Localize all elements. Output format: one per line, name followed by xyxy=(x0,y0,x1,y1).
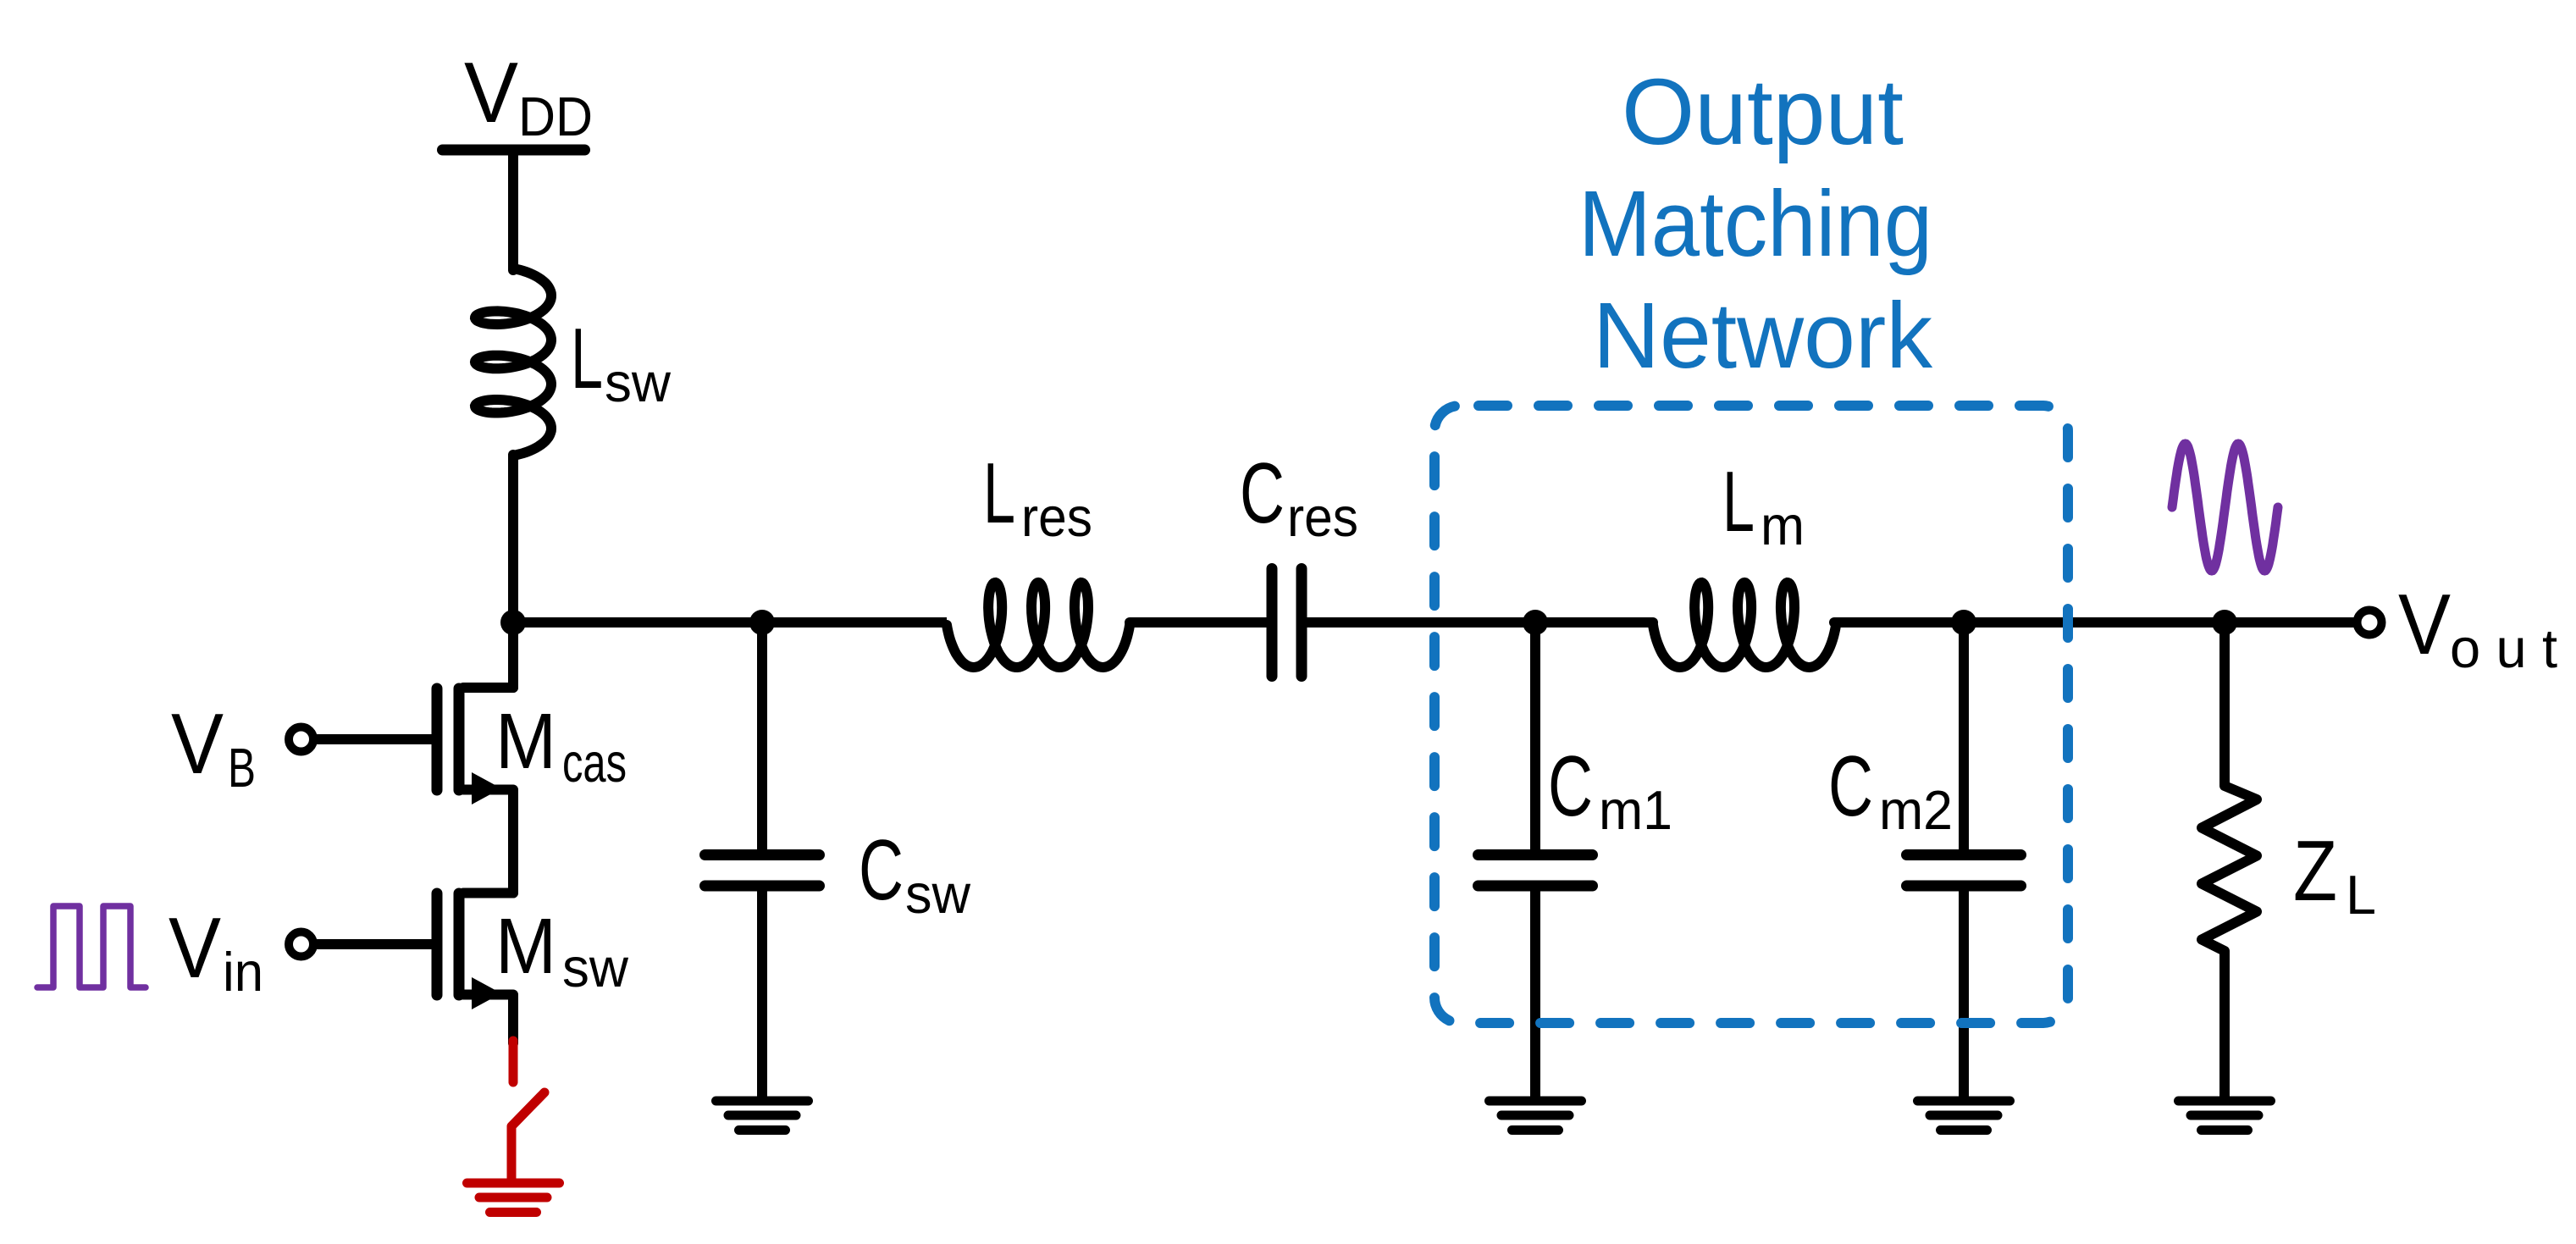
Msw channel bar xyxy=(454,893,465,995)
Mcas drain lead xyxy=(463,683,513,693)
ground (Csw) xyxy=(716,1101,809,1131)
Mcas source arrow xyxy=(472,772,501,804)
wire: Lsw to drain of Mcas (through rail junction) xyxy=(508,455,518,688)
VDD supply bar xyxy=(443,145,585,156)
wire: Vin gate lead xyxy=(313,939,432,949)
svg-text:sw: sw xyxy=(605,351,672,413)
svg-text:L: L xyxy=(571,312,603,406)
junction node Cm1 xyxy=(1523,610,1548,635)
svg-text:M: M xyxy=(495,697,556,785)
resistor ZL (zigzag) xyxy=(2202,786,2257,951)
wire: VB gate lead xyxy=(313,734,432,744)
svg-text:L: L xyxy=(983,446,1015,541)
transistor Msw xyxy=(437,893,513,1044)
svg-text:m1: m1 xyxy=(1599,779,1672,841)
Msw source arrow xyxy=(472,977,501,1009)
capacitor Cm2 plates xyxy=(1907,855,2021,887)
wire: Cm1 top lead xyxy=(1530,622,1540,851)
terminal VB xyxy=(289,727,313,752)
wire: Cm2 node to Vout terminal xyxy=(1964,617,2354,628)
svg-text:C: C xyxy=(859,823,904,918)
inductor Lsw (vertical coil) xyxy=(475,268,551,456)
svg-text:Z: Z xyxy=(2293,824,2337,919)
Msw gate bar xyxy=(432,893,443,995)
Msw source lead xyxy=(463,995,513,1044)
wire: Lres to Cres xyxy=(1130,617,1267,628)
svg-text:Network: Network xyxy=(1593,284,1933,388)
wire: Cm2 bottom lead xyxy=(1959,890,1969,1101)
svg-text:Matching: Matching xyxy=(1578,172,1932,276)
svg-text:V: V xyxy=(169,901,221,996)
svg-text:V: V xyxy=(2398,578,2451,672)
svg-text:Output: Output xyxy=(1622,60,1904,164)
svg-text:C: C xyxy=(1828,739,1873,834)
wire: Lm to Cm2 node xyxy=(1834,617,1964,628)
junction node Csw xyxy=(749,610,775,635)
wire: VDD bar down to Lsw xyxy=(508,150,518,270)
svg-text:cas: cas xyxy=(562,732,627,793)
wire: Cm1 bottom lead xyxy=(1530,890,1540,1101)
input square-wave symbol xyxy=(37,906,146,987)
junction node at drain rail xyxy=(500,610,526,635)
ground (Cm1) xyxy=(1490,1101,1582,1131)
svg-text:sw: sw xyxy=(562,937,629,998)
Mcas channel bar xyxy=(454,688,465,790)
svg-text:res: res xyxy=(1021,486,1092,548)
svg-text:in: in xyxy=(223,941,263,1003)
svg-text:L: L xyxy=(1722,455,1755,550)
terminal Vout xyxy=(2358,611,2382,635)
wire: Csw bottom lead xyxy=(757,890,767,1101)
wire: Cm2 top lead xyxy=(1959,622,1969,851)
wire: ZL top lead xyxy=(2219,622,2230,786)
svg-text:V: V xyxy=(464,46,518,141)
wire: red stub below Msw source xyxy=(509,1041,518,1082)
svg-text:M: M xyxy=(495,902,556,990)
junction node Cm2 xyxy=(1951,610,1976,635)
capacitor Cm1 plates xyxy=(1479,855,1593,887)
terminal Vin xyxy=(289,932,313,957)
transistor Mcas xyxy=(437,688,513,893)
wire: rail from drain node to Lres xyxy=(513,617,947,628)
svg-text:B: B xyxy=(228,737,256,799)
Mcas gate bar xyxy=(432,688,443,790)
wire: ZL bottom lead xyxy=(2219,951,2230,1101)
svg-text:m: m xyxy=(1761,495,1805,556)
inductor Lm (series coil) xyxy=(1653,583,1836,667)
ground (ZL) xyxy=(2179,1101,2271,1131)
svg-text:C: C xyxy=(1548,739,1593,834)
ground (red, switch) xyxy=(467,1183,560,1213)
ground (Cm2) xyxy=(1918,1101,2010,1131)
svg-text:m2: m2 xyxy=(1879,779,1953,841)
switch blade (open, red) xyxy=(511,1092,544,1179)
capacitor Cres (series) plates xyxy=(1272,569,1302,677)
wire: Cres to Cm1 node xyxy=(1307,617,1535,628)
junction node ZL xyxy=(2212,610,2237,635)
svg-text:C: C xyxy=(1240,446,1285,541)
capacitor Csw plates xyxy=(705,855,820,887)
svg-text:DD: DD xyxy=(518,86,593,147)
inductor Lres (series coil) xyxy=(947,583,1130,667)
wire: Csw top lead xyxy=(757,622,767,851)
Msw drain lead xyxy=(463,888,513,898)
svg-text:V: V xyxy=(171,697,224,792)
svg-text:sw: sw xyxy=(905,863,971,925)
output matching network dashed box xyxy=(1434,406,2068,1023)
wire: Cm1 node to Lm xyxy=(1535,617,1653,628)
svg-text:res: res xyxy=(1287,486,1358,548)
svg-text:L: L xyxy=(2346,864,2376,926)
Mcas source lead xyxy=(463,790,513,893)
output sine-wave symbol xyxy=(2172,444,2278,571)
